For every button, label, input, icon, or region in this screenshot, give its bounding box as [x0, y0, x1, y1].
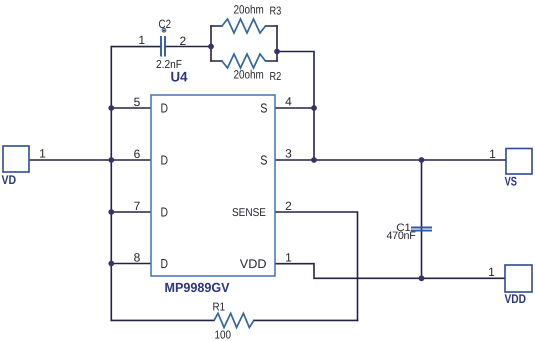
svg-text:MP9989GV: MP9989GV	[165, 280, 230, 295]
svg-text:D: D	[161, 256, 169, 271]
svg-text:20ohm: 20ohm	[234, 2, 264, 16]
svg-text:R1: R1	[213, 302, 226, 314]
svg-text:1: 1	[285, 251, 292, 265]
svg-text:5: 5	[134, 95, 141, 109]
svg-text:6: 6	[134, 147, 141, 161]
svg-text:3: 3	[285, 147, 292, 161]
svg-text:1: 1	[138, 33, 145, 47]
svg-text:VD: VD	[2, 173, 17, 187]
svg-text:1: 1	[488, 265, 495, 279]
svg-text:VDD: VDD	[505, 292, 527, 306]
svg-text:D: D	[161, 205, 169, 220]
svg-text:4: 4	[285, 95, 292, 109]
svg-text:VS: VS	[505, 175, 517, 189]
svg-text:20ohm: 20ohm	[234, 68, 264, 82]
svg-text:470nF: 470nF	[387, 230, 417, 242]
svg-text:S: S	[260, 101, 267, 116]
svg-text:S: S	[260, 153, 267, 168]
svg-text:SENSE: SENSE	[232, 207, 266, 219]
svg-text:2: 2	[180, 34, 187, 48]
svg-text:R2: R2	[270, 71, 282, 83]
svg-text:2: 2	[285, 199, 292, 213]
svg-text:D: D	[161, 101, 169, 116]
svg-text:U4: U4	[171, 69, 188, 85]
svg-text:R3: R3	[270, 6, 282, 18]
svg-text:100: 100	[215, 330, 232, 341]
svg-text:C2: C2	[159, 17, 172, 31]
svg-text:8: 8	[134, 251, 141, 265]
svg-text:1: 1	[39, 147, 46, 161]
svg-text:1: 1	[489, 147, 496, 161]
svg-text:7: 7	[134, 199, 141, 213]
svg-text:D: D	[161, 153, 169, 168]
svg-text:VDD: VDD	[240, 257, 267, 271]
